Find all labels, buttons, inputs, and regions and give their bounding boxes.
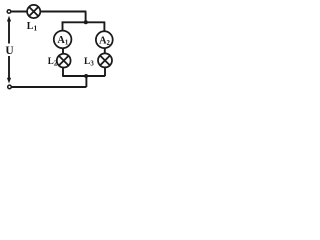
svg-text:L2: L2 (48, 56, 58, 67)
svg-text:L1: L1 (27, 21, 38, 33)
svg-text:U: U (5, 45, 14, 57)
svg-text:L3: L3 (84, 57, 94, 67)
